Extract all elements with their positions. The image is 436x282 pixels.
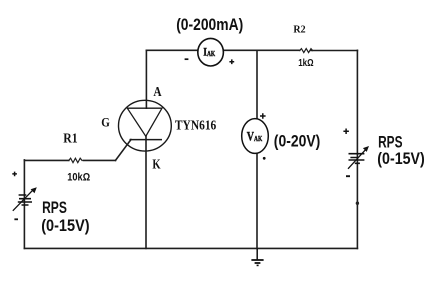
wire gate diagonal — [116, 140, 132, 161]
resistor R2 — [300, 49, 313, 53]
wire R1 to gate bend — [83, 159, 115, 161]
ammeter U2 circle — [198, 38, 224, 66]
svg-text:(0-15V): (0-15V) — [377, 150, 425, 168]
svg-text:R1: R1 — [63, 131, 77, 146]
right RPS minus sign — [346, 175, 350, 177]
ammeter minus sign — [185, 58, 189, 60]
thyristor triangle — [127, 108, 162, 136]
resistor R1 — [69, 158, 82, 162]
svg-text:10kΩ: 10kΩ — [67, 172, 90, 184]
svg-text:(0-15V): (0-15V) — [41, 217, 89, 235]
thyristor U1 TYN616 circle — [118, 100, 171, 151]
svg-text:G: G — [101, 114, 110, 129]
thyristor cathode bar — [130, 139, 163, 141]
wire left vertical — [23, 160, 25, 249]
svg-text:RPS: RPS — [378, 133, 402, 151]
svg-text:TYN616: TYN616 — [175, 118, 217, 133]
left RPS minus sign — [14, 218, 18, 220]
right RPS plus sign — [343, 129, 349, 135]
voltmeter U3 circle — [242, 119, 269, 154]
battery B2 right RPS arrow — [348, 148, 367, 169]
wire voltmeter branch vertical — [256, 50, 258, 248]
svg-text:(0-200mA): (0-200mA) — [176, 16, 243, 34]
wire cathode vertical — [145, 136, 147, 248]
battery B2 right RPS symbol bars — [349, 154, 365, 164]
svg-text:RPS: RPS — [42, 199, 67, 217]
svg-text:K: K — [152, 157, 160, 172]
svg-text:R2: R2 — [293, 25, 305, 36]
battery B1 left RPS arrow — [13, 189, 34, 211]
battery B1 left RPS symbol bars — [18, 195, 32, 205]
svg-text:(0-20V): (0-20V) — [274, 133, 321, 151]
wire top horizontal (anode corner to top-right corner) — [146, 49, 299, 51]
voltmeter minus dot — [263, 157, 266, 160]
wire R2 to top-right corner — [311, 50, 357, 52]
voltmeter plus sign — [260, 113, 266, 119]
left RPS plus sign — [12, 172, 17, 177]
svg-text:A: A — [153, 85, 162, 100]
wire right vertical — [356, 50, 358, 248]
svg-text:1kΩ: 1kΩ — [298, 58, 313, 69]
wire left horizontal to R1 — [24, 159, 68, 161]
junction dot on right wire — [356, 202, 359, 205]
ground — [251, 248, 263, 265]
wire bottom horizontal — [24, 247, 357, 249]
wire anode vertical — [145, 50, 147, 108]
ammeter plus sign — [229, 59, 234, 64]
